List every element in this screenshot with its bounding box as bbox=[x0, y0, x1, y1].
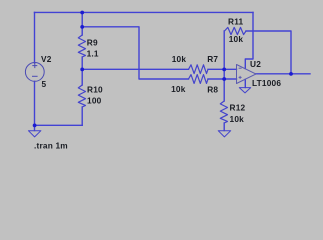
svg-text:R7: R7 bbox=[207, 54, 218, 64]
svg-text:R11: R11 bbox=[228, 17, 244, 27]
wire opamp output bbox=[256, 73, 310, 75]
svg-text:10k: 10k bbox=[172, 54, 187, 64]
wire R9 to R10 bbox=[81, 57, 83, 85]
wire R10 bottom lead bbox=[81, 107, 83, 125]
resistor R10 bbox=[78, 85, 85, 107]
svg-text:LT1006: LT1006 bbox=[252, 78, 281, 88]
wire opamp V- ground stem bbox=[244, 79, 246, 87]
ground below op-amp bbox=[239, 88, 250, 93]
svg-text:10k: 10k bbox=[171, 84, 186, 94]
wire node to R8 horizontal bbox=[82, 27, 188, 79]
wire R9R10 node to R7 bbox=[82, 68, 188, 70]
resistor R7 bbox=[189, 65, 209, 74]
ground below R12 bbox=[218, 131, 231, 137]
node top rail / R9 junction bbox=[80, 11, 84, 15]
resistor R11 bbox=[225, 27, 247, 34]
op-amp U2 bbox=[237, 65, 257, 84]
svg-text:10k: 10k bbox=[230, 114, 245, 124]
resistor R8 bbox=[189, 75, 209, 84]
svg-text:10k: 10k bbox=[229, 34, 244, 44]
node noninverting input bbox=[222, 77, 226, 81]
voltage source V2 bbox=[25, 63, 44, 82]
wire V2 bottom lead bbox=[35, 82, 83, 126]
node R9/R10/R7 bbox=[80, 68, 84, 72]
node V2 ground bbox=[33, 124, 37, 128]
wire V2 ground stem bbox=[34, 125, 36, 130]
svg-text:100: 100 bbox=[87, 96, 102, 106]
ground below V2 bbox=[28, 131, 41, 137]
svg-text:5: 5 bbox=[42, 79, 47, 89]
svg-text:.tran 1m: .tran 1m bbox=[34, 140, 68, 150]
svg-text:V2: V2 bbox=[41, 54, 52, 64]
wire R7 to inverting input bbox=[208, 68, 237, 70]
node inverting input bbox=[222, 68, 226, 72]
svg-text:R12: R12 bbox=[230, 103, 246, 113]
wire V2 top lead bbox=[34, 12, 36, 63]
svg-text:R8: R8 bbox=[207, 85, 218, 95]
resistor R12 bbox=[220, 101, 227, 123]
wire R9 branch vertical bbox=[81, 12, 83, 35]
wire top rail V+ bbox=[35, 11, 254, 13]
wire R11 left to R12 vertical bbox=[223, 31, 225, 101]
wire R11 right to feedback corner bbox=[246, 31, 291, 74]
node R9 top / R8 branch bbox=[80, 25, 84, 29]
resistor R9 bbox=[78, 35, 85, 57]
svg-text:1.1: 1.1 bbox=[87, 49, 99, 59]
wire R12 ground lead bbox=[223, 123, 225, 131]
svg-text:R10: R10 bbox=[87, 85, 103, 95]
node output feedback bbox=[289, 72, 293, 76]
wire V+ drop to opamp bbox=[245, 12, 253, 68]
wire R8 to noninverting input bbox=[208, 78, 237, 80]
svg-text:R9: R9 bbox=[87, 38, 98, 48]
svg-text:U2: U2 bbox=[250, 59, 261, 69]
